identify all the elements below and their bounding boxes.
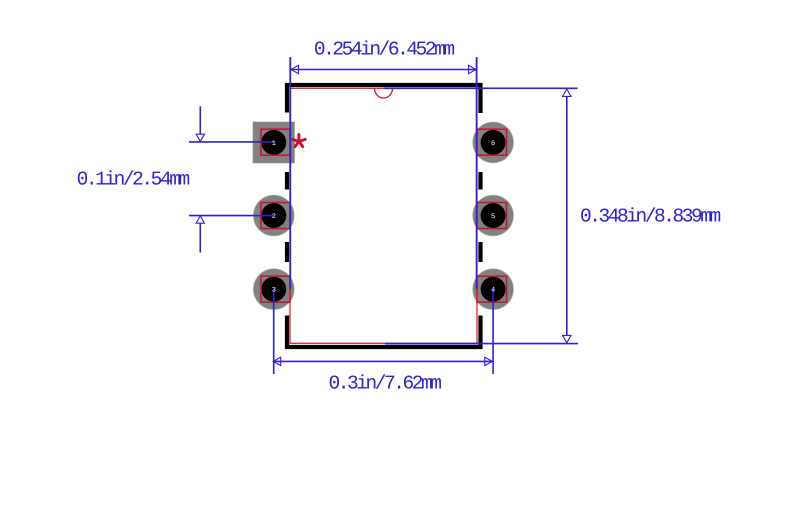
pad 2 [253, 195, 294, 236]
package silkscreen left edge dash 3 [285, 242, 289, 262]
dimension 0.254in right arrowhead [469, 65, 477, 73]
svg-text:1: 1 [272, 140, 276, 148]
svg-text:0.3in/7.62mm: 0.3in/7.62mm [328, 373, 441, 395]
package silkscreen left edge dash 1 [285, 84, 289, 113]
package silkscreen top edge (black) [285, 83, 483, 87]
dimension 0.3in extension line right (from pad 4) [492, 289, 494, 374]
package silkscreen right edge dash 3 [478, 242, 482, 262]
package silkscreen right edge dash 4 [478, 316, 482, 349]
dimension 0.3in right arrowhead [485, 357, 493, 365]
pad 3 [253, 269, 294, 310]
pad 5 [473, 195, 514, 236]
component body outline (red) [290, 88, 477, 343]
dimension 0.254in left arrowhead [291, 65, 299, 73]
dimension 0.254in line [291, 69, 476, 71]
pad 1 (square pad, pin 1) [253, 122, 295, 163]
pin 1 index notch (red arc) [375, 88, 393, 98]
package silkscreen right edge dash 1 [478, 84, 482, 113]
dimension 0.1in upper witness line [199, 106, 201, 134]
dimension 0.254in extension line right [476, 57, 478, 289]
dimension 0.1in leader to pin 2 [189, 215, 274, 217]
package silkscreen bottom edge (black) [285, 345, 483, 349]
dimension 0.348in top connector line [384, 87, 578, 89]
pad 4 red outline [477, 276, 507, 302]
dimension 0.1in lower witness line [199, 223, 201, 252]
svg-text:4: 4 [491, 287, 495, 295]
svg-text:5: 5 [491, 213, 495, 221]
svg-text:0.254in/6.452mm: 0.254in/6.452mm [314, 38, 455, 60]
package silkscreen left edge dash 2 [285, 172, 289, 190]
dimension 0.1in leader to pin 1 [189, 141, 274, 143]
dimension 0.348in bottom connector line [385, 343, 578, 345]
dimension 0.348in line [566, 96, 568, 335]
svg-text:3: 3 [272, 287, 276, 295]
pad 2 red outline [261, 203, 290, 229]
dimension 0.348in bottom arrowhead [563, 335, 571, 342]
dimension 0.348in top arrowhead [563, 89, 571, 96]
pad 6 red outline [477, 129, 507, 155]
pad 4 [473, 269, 514, 310]
pad 6 [473, 122, 514, 163]
dimension 0.1in lower arrowhead [196, 216, 204, 223]
pin 1 marker asterisk (red) [293, 134, 306, 146]
dimension 0.1in upper arrowhead [196, 134, 204, 141]
svg-text:0.348in/8.839mm: 0.348in/8.839mm [580, 206, 721, 228]
pad 5 red outline [477, 203, 507, 229]
svg-text:2: 2 [272, 213, 276, 221]
dimension 0.3in left arrowhead [273, 357, 281, 365]
pad 3 red outline [261, 276, 290, 302]
package silkscreen left edge dash 4 [285, 316, 289, 349]
dimension 0.3in extension line left (from pad 3) [273, 289, 275, 374]
svg-text:0.1in/2.54mm: 0.1in/2.54mm [77, 169, 190, 191]
dimension 0.3in line [274, 360, 492, 362]
pad 1 red outline [261, 129, 290, 155]
svg-text:6: 6 [491, 140, 495, 148]
dimension 0.254in extension line left [289, 57, 291, 289]
package silkscreen right edge dash 2 [478, 172, 482, 190]
